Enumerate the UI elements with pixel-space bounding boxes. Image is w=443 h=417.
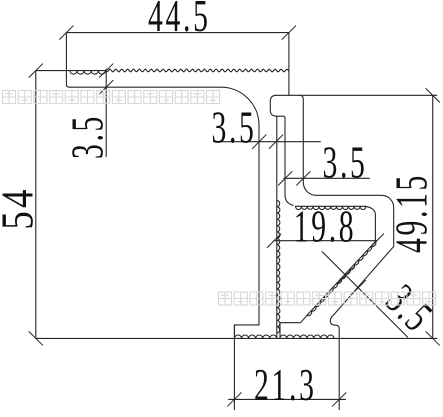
svg-text:44.5: 44.5 (148, 0, 211, 42)
svg-text:3.5: 3.5 (322, 139, 367, 189)
svg-text:3.5: 3.5 (63, 114, 113, 159)
svg-text:3.5: 3.5 (211, 103, 256, 153)
svg-text:21.3: 21.3 (254, 361, 317, 411)
svg-text:54: 54 (0, 186, 44, 229)
svg-text:49.15: 49.15 (388, 173, 438, 253)
svg-text:19.8: 19.8 (294, 203, 357, 253)
